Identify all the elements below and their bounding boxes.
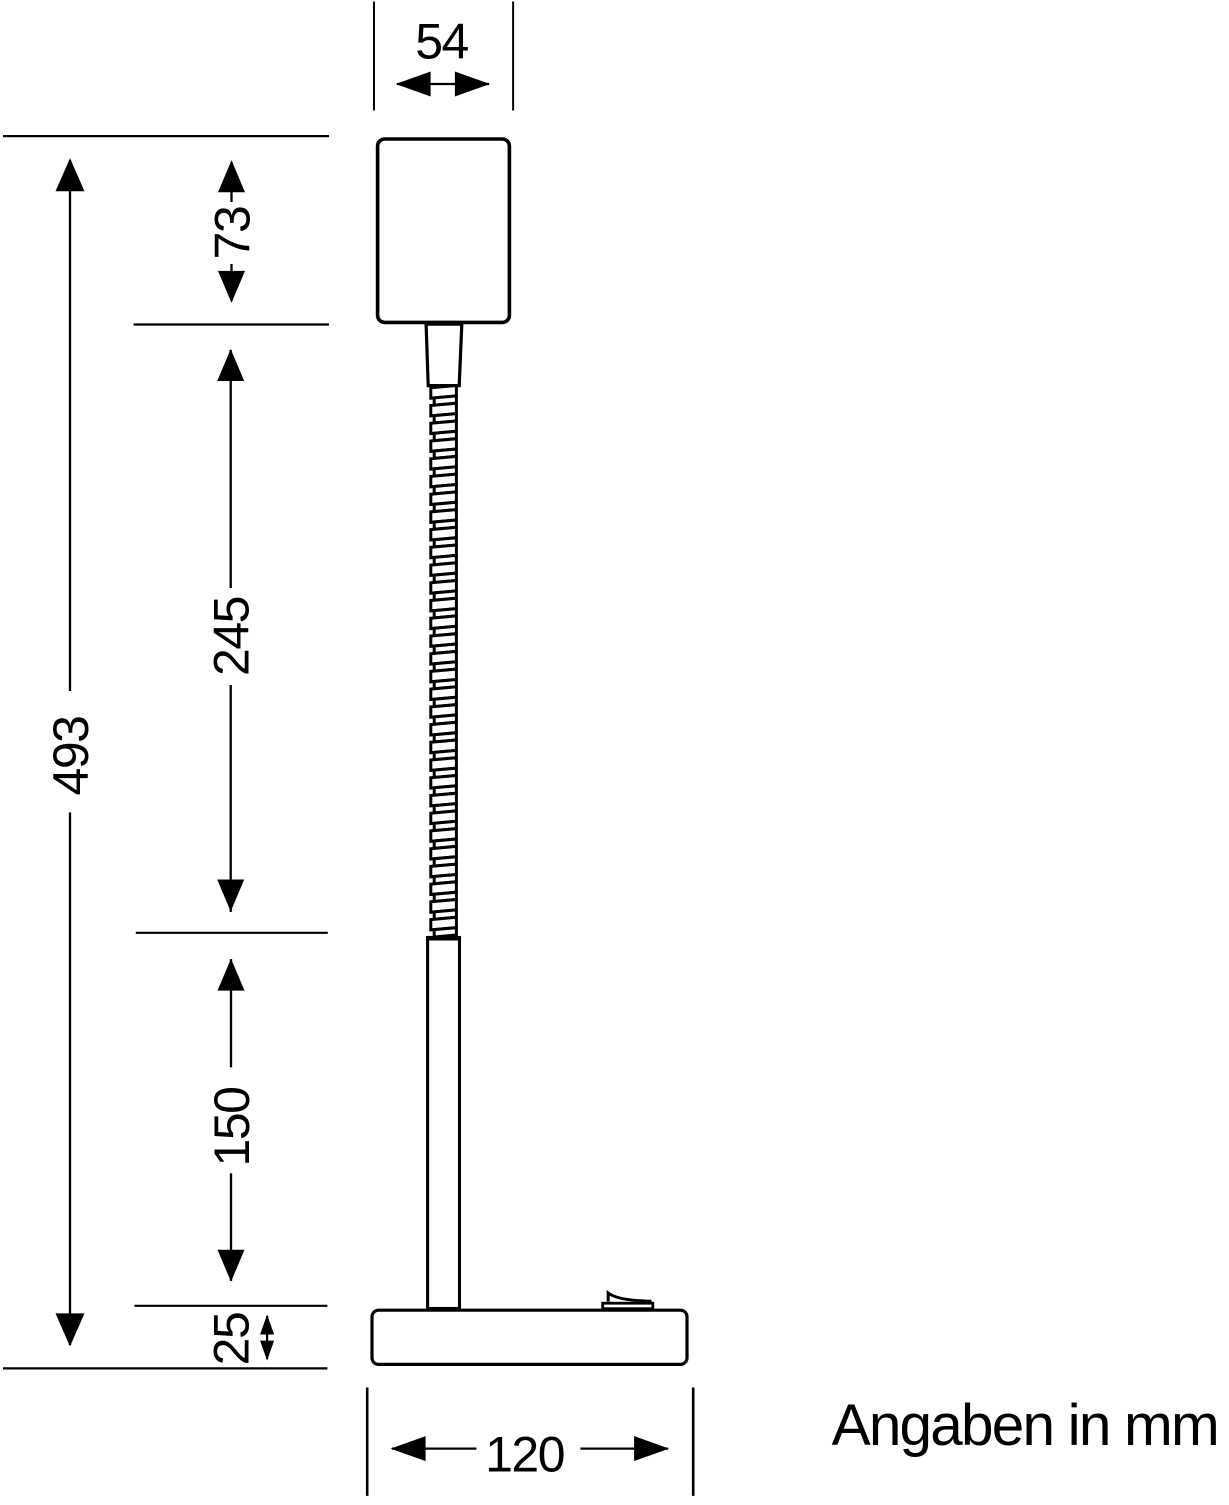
svg-text:73: 73 [205, 207, 261, 260]
svg-text:Angaben in mm: Angaben in mm [832, 1393, 1218, 1458]
stem tube [428, 938, 460, 1309]
bottom extension line (base bottom level, y=1368.4) [3, 1367, 327, 1369]
120 extension line right [692, 1388, 695, 1496]
lamp base [372, 1310, 687, 1364]
dimension 150 line [230, 959, 232, 1281]
extension line shade bottom level (y=324.5) [134, 323, 330, 325]
svg-text:245: 245 [204, 597, 260, 676]
svg-text:150: 150 [204, 1088, 260, 1167]
54 extension line right [512, 2, 514, 111]
dimension 54 arrow [397, 83, 489, 85]
dimension 493 line [69, 160, 71, 1345]
svg-text:25: 25 [204, 1313, 260, 1366]
dimension 245 line [230, 350, 232, 912]
svg-text:54: 54 [415, 14, 468, 70]
gooseneck flexible tube ribs [431, 386, 457, 938]
switch lever [608, 1293, 651, 1302]
extension line base top level (y=1305.8) [135, 1305, 328, 1307]
stem top cap line [426, 936, 461, 941]
dimension 120 line [392, 1447, 668, 1449]
lamp shade [378, 139, 510, 322]
top extension line (shade top level, y=136) [3, 135, 329, 137]
switch plate [603, 1303, 653, 1309]
extension line gooseneck bottom level (y=932.8) [136, 932, 328, 934]
svg-text:493: 493 [43, 717, 99, 796]
svg-text:120: 120 [485, 1427, 564, 1483]
shade neck (trapezoid) [426, 324, 462, 385]
dimension 73 arrows [230, 162, 232, 301]
120 extension line left [366, 1388, 369, 1496]
dimension 25 small double arrow [266, 1316, 268, 1359]
54 extension line left [373, 2, 375, 111]
